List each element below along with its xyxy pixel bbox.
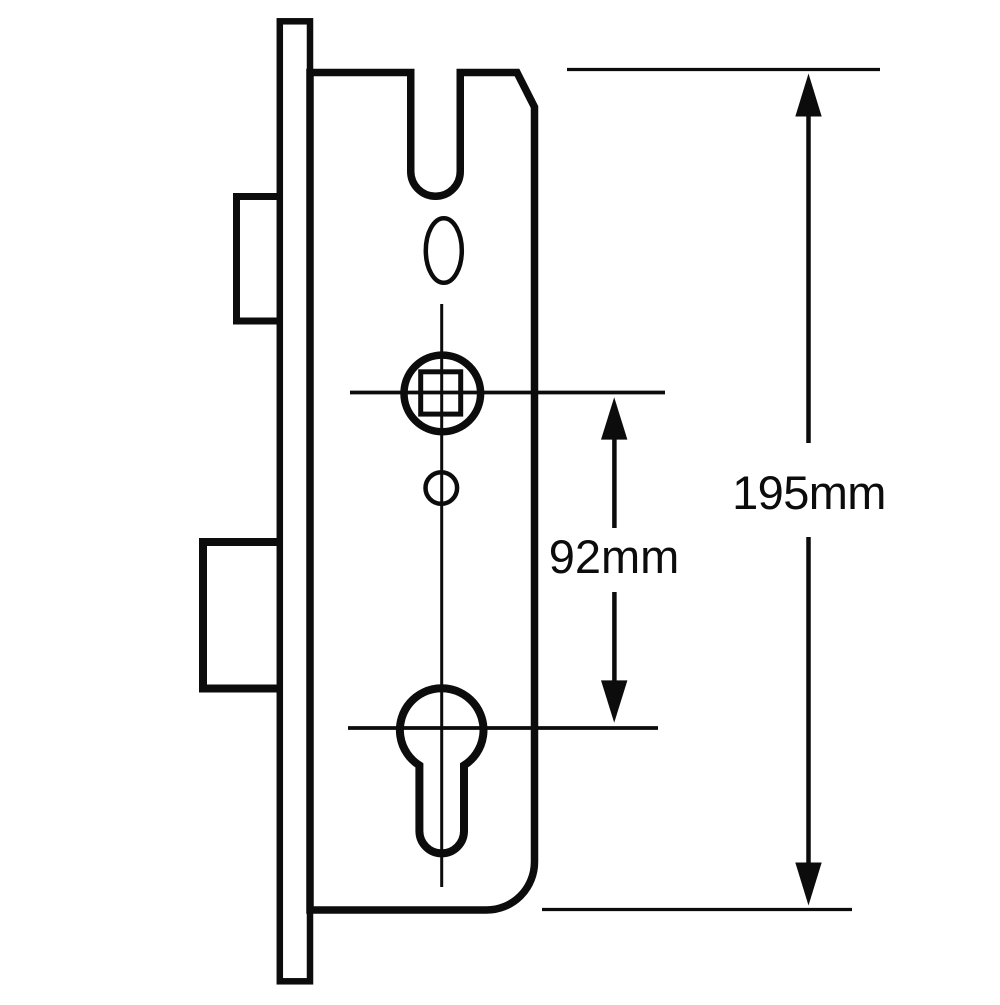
oval slot (426, 218, 462, 283)
195mm dimension line lower segment (806, 537, 811, 864)
spindle hub circle (404, 355, 481, 432)
vertical centerline (440, 304, 443, 887)
svg-text:92mm: 92mm (549, 530, 680, 583)
faceplate (280, 21, 310, 981)
latch bolt (upper) (237, 197, 285, 322)
195mm dimension line upper segment (806, 114, 811, 443)
195mm bottom arrowhead (795, 863, 821, 906)
bottom extension line (542, 908, 852, 911)
euro cylinder cutout (400, 688, 484, 853)
lock body (310, 73, 535, 911)
92mm dimension line lower segment (612, 592, 617, 683)
92mm bottom arrowhead (601, 680, 627, 722)
92mm top arrowhead (601, 397, 627, 439)
spindle horizontal centerline (350, 391, 665, 395)
spindle square follower (421, 372, 461, 414)
cylinder horizontal centerline (348, 726, 658, 730)
svg-text:195mm: 195mm (732, 466, 886, 519)
fixing hole (426, 472, 458, 504)
92mm dimension line upper segment (612, 437, 617, 528)
deadbolt (lower) (203, 542, 285, 689)
195mm top arrowhead (795, 74, 821, 117)
top extension line (567, 68, 880, 71)
